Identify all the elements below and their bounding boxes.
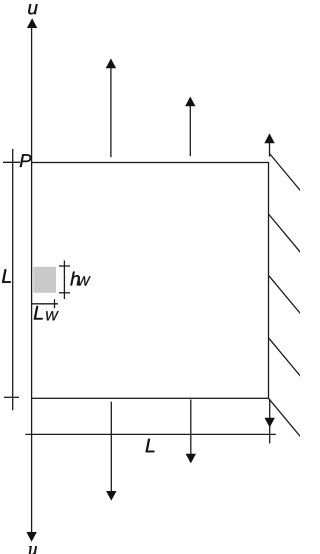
left dimension line L (12, 149, 14, 410)
label u (top axis) (28, 4, 37, 14)
label L of LW (34, 306, 43, 319)
top load arrow 1 head (106, 58, 116, 68)
hW dimension top tick (59, 265, 70, 267)
label L (bottom) (146, 439, 155, 452)
bottom load arrow 1 shaft (110, 402, 112, 493)
bottom load arrow 1 head (106, 491, 116, 501)
top load arrow 2 shaft (189, 105, 191, 156)
u-axis bottom arrowhead (26, 532, 36, 542)
LW dimension right tick (54, 299, 56, 308)
label L (left) (2, 269, 11, 282)
hatch line 3 (269, 275, 302, 314)
label h of hW (70, 272, 79, 286)
u-axis top shaft (31, 27, 33, 163)
top load arrow 1 shaft (110, 67, 112, 157)
bottom dimension right tick (269, 426, 271, 444)
label P (20, 154, 32, 167)
hatch line 2 (269, 214, 302, 253)
top load arrow 2 head (185, 97, 195, 107)
label W subscript of hW (78, 276, 91, 285)
plate outline (32, 163, 269, 399)
bottom dimension line L (25, 433, 275, 435)
u-axis top arrowhead (27, 18, 37, 28)
hatch line 5 (269, 398, 302, 437)
label u (bottom axis) (29, 546, 37, 554)
bottom load arrow 3 head (265, 418, 275, 428)
left dimension bottom tick (4, 396, 19, 398)
bottom load arrow 2 head (186, 454, 196, 464)
hW dimension bottom tick (59, 292, 70, 294)
hatch line 1 (270, 154, 302, 192)
bottom load arrow 2 shaft (190, 400, 192, 456)
bottom load arrow 3 shaft (269, 399, 271, 420)
u-axis bottom shaft (31, 398, 33, 533)
left dimension top tick (3, 161, 20, 163)
label W subscript of LW (46, 311, 59, 320)
top load arrow 3 shaft (269, 142, 271, 156)
hatch line 4 (269, 338, 302, 377)
weld patch (gray square) (33, 267, 56, 293)
hW dimension line (63, 261, 65, 300)
LW dimension line (32, 303, 58, 305)
top load arrow 3 head (264, 133, 274, 143)
